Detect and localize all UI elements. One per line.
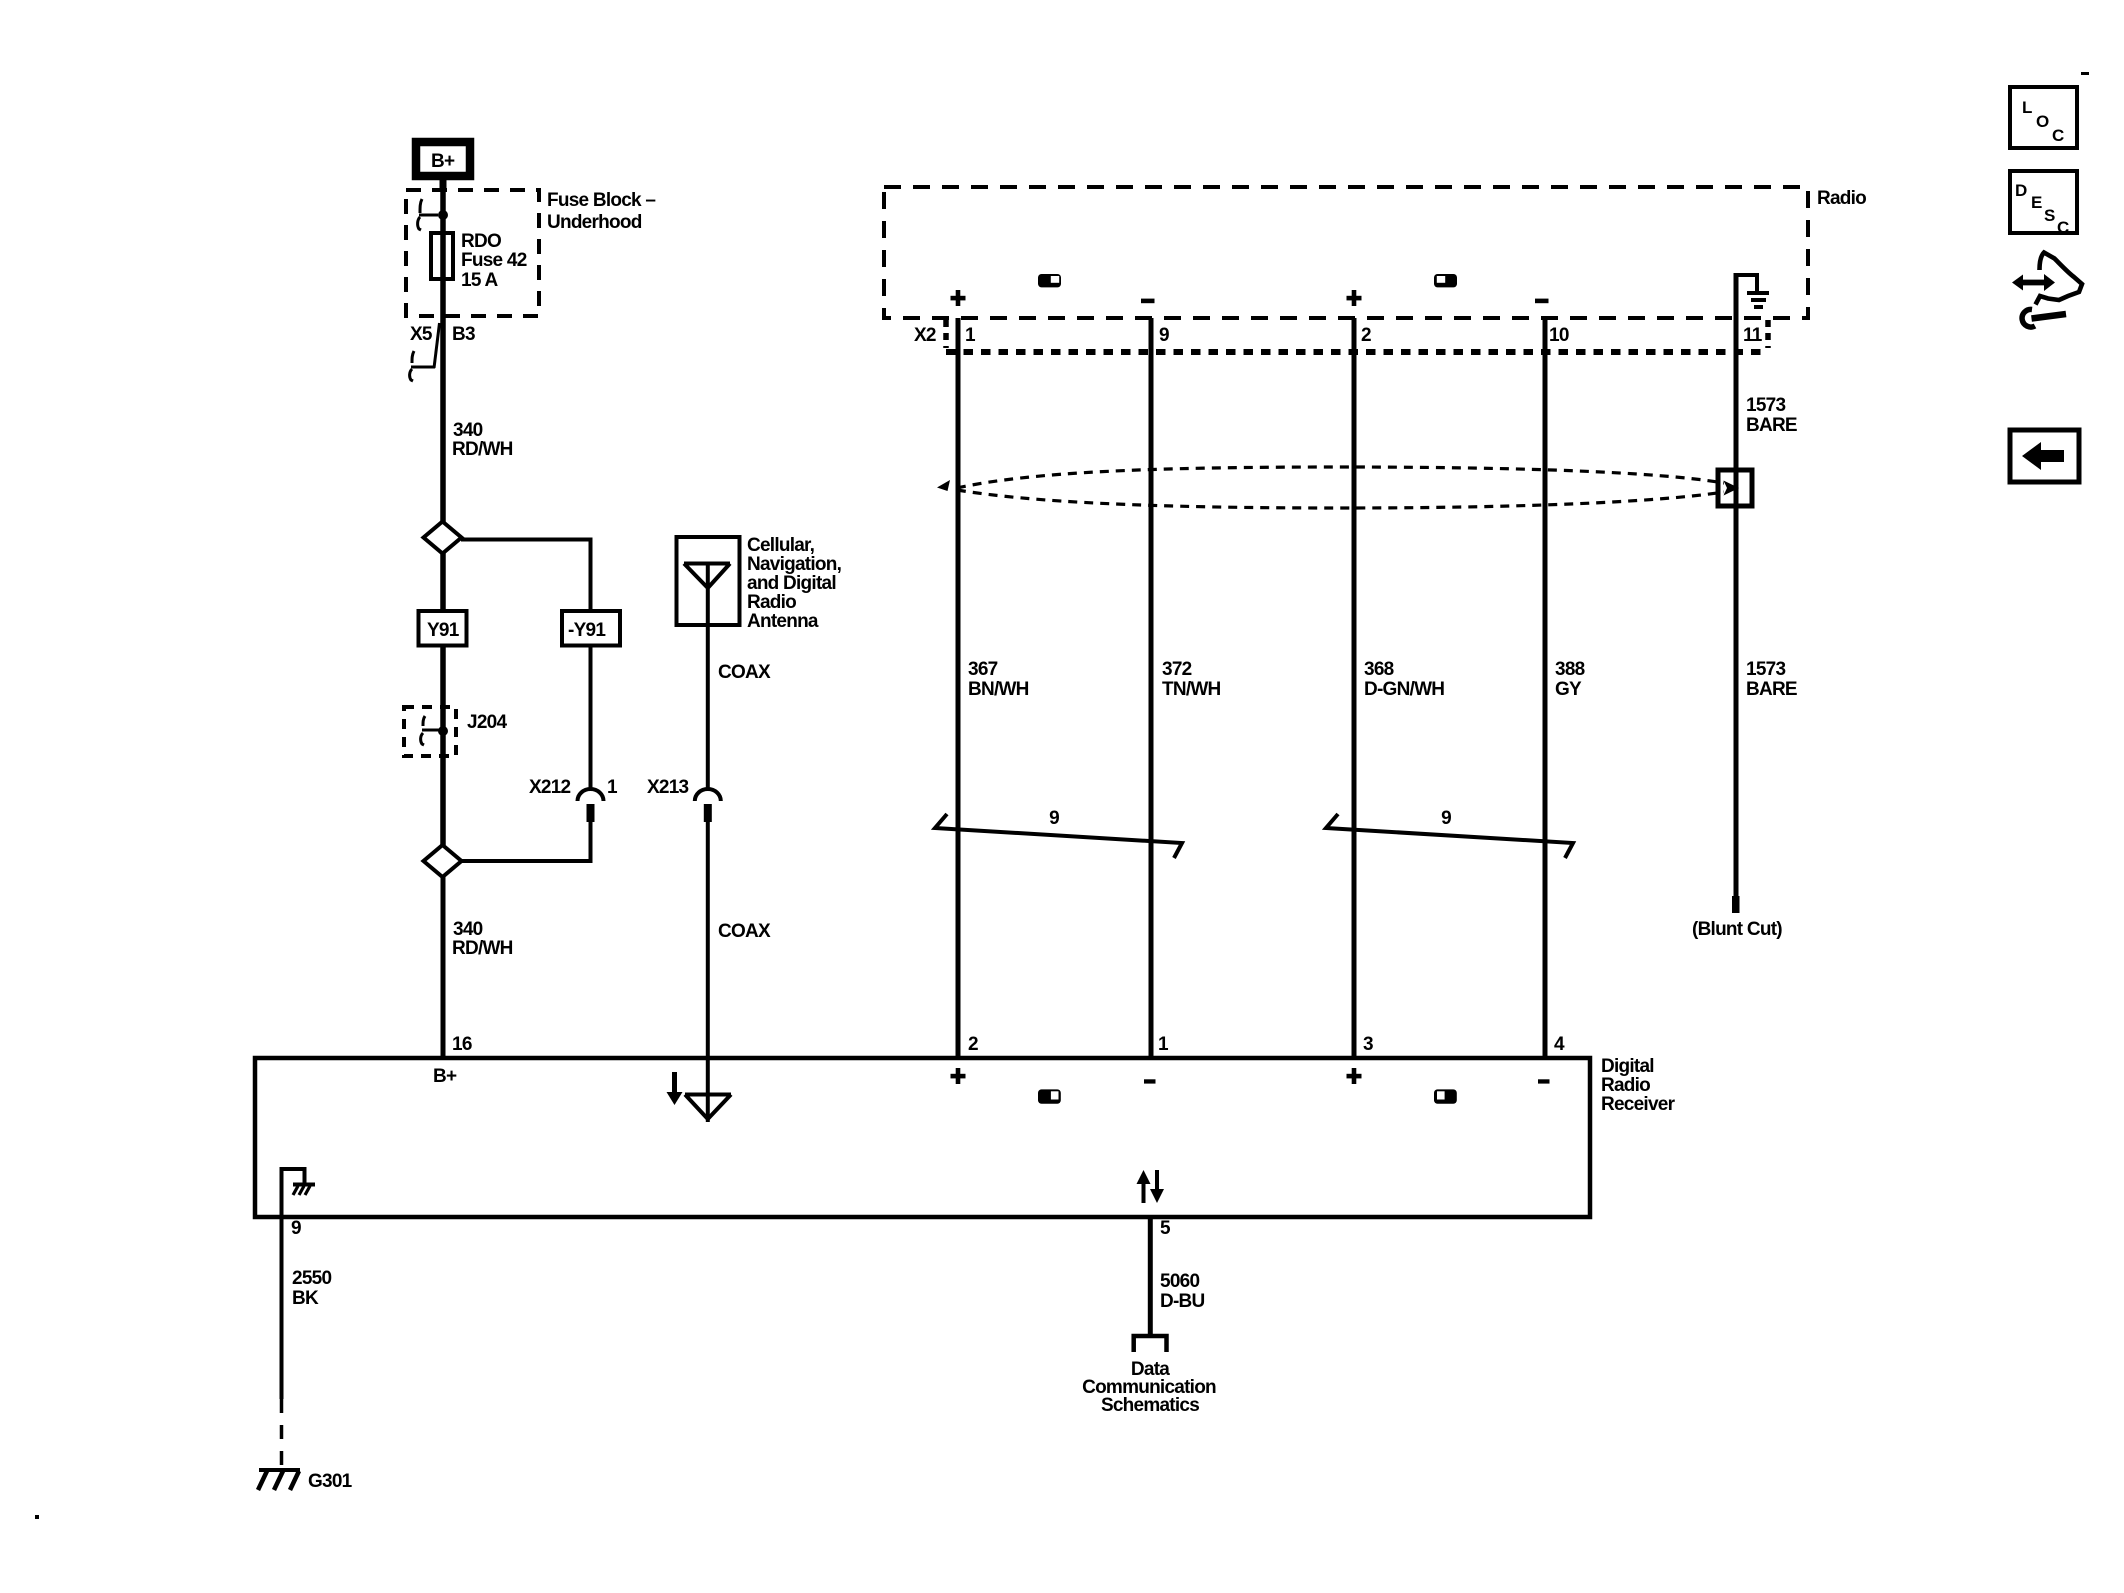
receiver pin4 minus [1538,1079,1550,1083]
wire label 372 TN/WH [1162,659,1221,700]
fuse block bus clip symbol [418,199,438,230]
wire radio pin2 to receiver pin3 [1352,318,1357,1057]
svg-text:15 A: 15 A [461,270,498,291]
wire 340 RD/WH label (lower) [452,919,513,959]
blunt cut bar [1732,896,1740,913]
svg-text:5: 5 [1160,1218,1171,1239]
svg-text:RD/WH: RD/WH [452,439,513,460]
svg-text:Underhood: Underhood [547,212,642,233]
svg-text:Radio: Radio [747,592,796,613]
svg-text:Y91: Y91 [427,620,460,641]
dashed ground wire [280,1399,284,1468]
coax wire lower [706,822,710,1122]
antenna symbol [684,562,730,625]
svg-text:X212: X212 [529,777,571,798]
svg-text:BK: BK [292,1288,319,1309]
wire B+ to fuse block [440,180,447,192]
wrench double-arrow icon [2012,253,2082,328]
svg-text:S: S [2044,206,2055,225]
svg-text:Radio: Radio [1601,1075,1650,1096]
label Digital Radio Receiver [1601,1056,1676,1115]
svg-text:E: E [2031,193,2042,212]
back arrow nav box [2010,430,2079,482]
wire radio pin9 to receiver pin1 [1149,318,1154,1057]
digital radio receiver box [255,1058,1590,1217]
receiver pin3 plus [1347,1068,1362,1084]
svg-text:3: 3 [1363,1034,1373,1055]
receiver internal chassis ground [282,1169,316,1195]
svg-text:10: 10 [1549,325,1569,346]
receiver antenna input symbol [685,1095,731,1120]
svg-text:D-BU: D-BU [1160,1291,1205,1312]
branch wire to -Y91 [461,540,591,614]
receiver speaker icon right [1434,1089,1457,1103]
J204 clip symbol [421,716,440,745]
receiver pin 9 wire [280,1167,284,1399]
connector X5 pin B3 labels [410,323,475,368]
wire through fuse block [440,192,446,522]
connector X213 [647,777,721,822]
connector X212 pin 1 [529,777,618,822]
svg-text:COAX: COAX [718,921,771,942]
svg-text:C: C [2052,126,2064,145]
svg-text:388: 388 [1555,659,1585,680]
connector clip symbol below X5 [410,351,435,381]
radio internal ground symbol pin11 [1734,273,1769,318]
svg-text:TN/WH: TN/WH [1162,679,1221,700]
ground G301 [258,1470,353,1492]
radio pin9 minus [1141,299,1155,304]
wire label 367 BN/WH [968,659,1029,700]
wire radio pin10 to receiver pin4 [1543,318,1548,1057]
svg-text:B+: B+ [431,151,455,172]
Y91 component box [419,611,467,646]
radio pin1 plus [951,290,966,306]
-Y91 component box [562,611,620,646]
svg-text:J204: J204 [467,712,507,733]
svg-text:340: 340 [453,420,483,441]
wire diamond to receiver pin 16 [441,877,446,1057]
svg-text:372: 372 [1162,659,1192,680]
radio speaker icon left [1038,274,1061,287]
svg-text:9: 9 [1049,808,1059,829]
svg-text:G301: G301 [308,1471,353,1492]
svg-text:B+: B+ [433,1066,457,1087]
wire label 368 D-GN/WH [1364,659,1444,700]
fuse RDO Fuse 42 15 A [431,233,453,279]
label Cellular Navigation and Digital Radio Antenna [747,535,842,632]
label Data Communication Schematics [1082,1359,1216,1416]
svg-text:Fuse Block –: Fuse Block – [547,190,655,211]
svg-text:4: 4 [1554,1034,1565,1055]
splice diamond S-lower [424,845,462,877]
svg-text:9: 9 [1159,325,1169,346]
svg-text:1: 1 [607,777,618,798]
svg-text:BARE: BARE [1746,679,1797,700]
label 1573 BARE upper [1746,395,1797,436]
svg-text:Navigation,: Navigation, [747,554,842,575]
radio speaker icon right [1434,274,1457,287]
off-page connector bracket [1134,1336,1167,1352]
radio pin2 plus [1347,290,1362,306]
svg-text:16: 16 [452,1034,472,1055]
radio pin10 minus [1535,299,1549,304]
svg-text:2: 2 [1361,325,1371,346]
svg-text:340: 340 [453,919,483,940]
svg-text:RD/WH: RD/WH [452,938,513,959]
wire radio pin11 drain 1573 BARE [1734,318,1739,896]
receiver pin2 plus [951,1068,966,1084]
J204 dashed box [404,707,456,756]
wire diamond to Y91 [440,553,446,613]
radio dashed box [884,187,1808,318]
receiver pin 5 wire [1148,1217,1153,1334]
antenna box [677,537,740,625]
B+ power symbol [416,142,470,176]
wire label 1573 BARE lower [1746,659,1797,700]
svg-text:O: O [2036,112,2049,131]
svg-text:(Blunt Cut): (Blunt Cut) [1692,919,1782,940]
wire label 5060 D-BU [1160,1271,1205,1312]
svg-text:2550: 2550 [292,1268,331,1289]
svg-text:367: 367 [968,659,998,680]
X2 connector dotted band [946,320,1768,352]
svg-text:1: 1 [965,325,976,346]
svg-text:Fuse 42: Fuse 42 [461,250,527,271]
splice diamond S-upper [424,522,462,554]
svg-text:Cellular,: Cellular, [747,535,815,556]
twisted pair symbol left [935,808,1182,858]
svg-text:11: 11 [1743,325,1763,346]
junction node in fuse block [438,210,448,220]
svg-text:2: 2 [968,1034,978,1055]
svg-text:Antenna: Antenna [747,611,819,632]
svg-text:Radio: Radio [1817,188,1866,209]
coax wire upper [706,625,710,788]
receiver data arrows [1137,1170,1165,1203]
svg-text:COAX: COAX [718,662,771,683]
svg-text:X2: X2 [914,325,936,346]
wire Y91 to J204 to diamond [440,645,446,845]
wire radio pin1 to receiver pin2 [956,318,961,1057]
svg-text:RDO: RDO [461,231,501,252]
junction node in J204 [438,726,448,736]
svg-text:L: L [2022,98,2032,117]
label Fuse Block - Underhood [547,190,655,233]
wire label 388 GY [1555,659,1585,700]
svg-text:C: C [2057,218,2069,237]
wire -Y91 to X212 [589,645,593,788]
svg-text:BN/WH: BN/WH [968,679,1029,700]
trim mark bottom left [35,1515,39,1519]
fuse value label [461,231,527,291]
receiver antenna input arrow [667,1072,683,1105]
twisted pair symbol right [1326,808,1573,858]
svg-text:-Y91: -Y91 [568,620,606,641]
svg-text:9: 9 [1441,808,1451,829]
receiver pin1 minus [1144,1079,1156,1083]
svg-text:D-GN/WH: D-GN/WH [1364,679,1444,700]
svg-text:and Digital: and Digital [747,573,836,594]
svg-text:Receiver: Receiver [1601,1094,1676,1115]
svg-text:B3: B3 [452,324,475,345]
shield termination box [1718,470,1752,506]
fuse block underhood dashed box [406,190,539,316]
svg-text:5060: 5060 [1160,1271,1199,1292]
receiver speaker icon left [1038,1089,1061,1103]
svg-text:X5: X5 [410,324,433,345]
svg-text:1: 1 [1158,1034,1169,1055]
svg-text:1573: 1573 [1746,395,1785,416]
wire label 2550 BK [292,1268,331,1309]
svg-text:Schematics: Schematics [1101,1395,1199,1416]
svg-text:Digital: Digital [1601,1056,1654,1077]
svg-text:9: 9 [291,1218,301,1239]
svg-text:BARE: BARE [1746,415,1797,436]
svg-text:368: 368 [1364,659,1394,680]
DESC nav box [2010,171,2077,237]
shield ellipse dashed [937,467,1724,508]
trim mark top right [2081,72,2089,75]
svg-text:1573: 1573 [1746,659,1785,680]
wire X212 to lower diamond [461,822,591,861]
svg-text:GY: GY [1555,679,1582,700]
svg-text:D: D [2015,181,2027,200]
LOC nav box [2010,87,2077,148]
svg-text:X213: X213 [647,777,689,798]
wire 340 RD/WH label (upper) [452,420,513,460]
